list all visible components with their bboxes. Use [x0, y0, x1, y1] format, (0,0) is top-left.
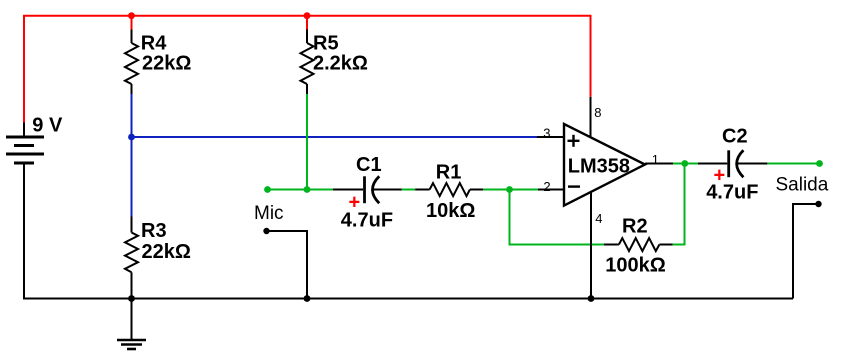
wire: black output stub pin 1 [645, 163, 673, 165]
op-amp U1 LM358 [564, 124, 645, 206]
ground [117, 299, 146, 350]
wire: red stub top of R4 [131, 16, 133, 30]
wire: green output to C2 [673, 163, 698, 165]
wire: blue from R4 bottom to node [131, 94, 133, 137]
resistor R3 22k [125, 217, 191, 299]
svg-text:R3: R3 [141, 220, 167, 242]
wire: battery minus down and along bottom rail [24, 163, 793, 299]
node Salida terminal (green dot) [816, 160, 823, 167]
wire: black pin 4 down to bottom rail [590, 192, 592, 299]
battery B1 9 V [6, 115, 63, 164]
wire: black stub pin 3 [537, 136, 564, 138]
resistor R4 22k [125, 30, 191, 95]
wire: green C1 to R1 [402, 189, 415, 191]
wire: Salida ground branch to bottom rail [793, 204, 819, 299]
wire: green from R5 bottom down to mic line [306, 94, 308, 190]
wire: black pin 8 stub [590, 97, 592, 137]
svg-text:4.7uF: 4.7uF [706, 182, 758, 204]
wire: blue node down toward R3 [131, 137, 133, 217]
wire: green mic line to C1 [268, 189, 334, 191]
svg-text:8: 8 [594, 105, 601, 120]
svg-text:3: 3 [543, 125, 550, 140]
svg-text:4: 4 [595, 211, 602, 226]
capacitor C2 4.7uF [698, 125, 767, 203]
wire: black stub to pin 2 [538, 189, 564, 191]
svg-text:LM358: LM358 [568, 156, 630, 178]
junction dot: top rail at R5 (red) [304, 12, 311, 19]
svg-text:C1: C1 [356, 154, 382, 176]
svg-text:4.7uF: 4.7uF [341, 210, 393, 232]
wire: blue node to op-amp pin3 [132, 136, 538, 138]
svg-text:10kΩ: 10kΩ [426, 200, 475, 222]
wire: red stub top of R5 [306, 16, 308, 30]
feedback wire: green from inverting node down and right [510, 190, 605, 245]
wire: green C2 to Salida [767, 163, 819, 165]
wire: green R1 to inverting node [483, 189, 538, 191]
svg-text:22kΩ: 22kΩ [142, 241, 191, 263]
feedback wire: green from R2 up to output node [673, 164, 685, 245]
node Mic terminal (green dot) [264, 186, 271, 193]
resistor R2 100k [604, 216, 673, 277]
svg-text:C2: C2 [722, 125, 748, 147]
junction dot: bottom rail at pin 4 [588, 295, 595, 302]
svg-text:100kΩ: 100kΩ [605, 255, 666, 277]
junction dot: output node (green) [681, 160, 688, 167]
junction dot: mic line at R5 column (green) [304, 186, 311, 193]
resistor R5 2.2k [301, 30, 368, 95]
junction dot: bottom rail at mic column [304, 295, 311, 302]
wire: mic ground terminal to bottom rail [267, 231, 308, 299]
capacitor C1 4.7uF [333, 154, 402, 231]
node Mic ground terminal (black dot) [263, 228, 269, 234]
svg-text:1: 1 [652, 152, 659, 167]
resistor R1 10k [415, 161, 483, 222]
junction dot: bottom rail at R3 [128, 295, 135, 302]
svg-text:Salida: Salida [776, 175, 829, 196]
svg-text:2: 2 [543, 179, 550, 194]
svg-text:R1: R1 [436, 161, 462, 183]
wire: top +V rail (red) [24, 16, 591, 124]
svg-text:R5: R5 [313, 33, 339, 55]
svg-text:R2: R2 [622, 216, 648, 238]
junction dot: inverting node (green) [506, 186, 513, 193]
svg-text:Mic: Mic [254, 203, 284, 224]
node Salida ground terminal (black dot) [815, 201, 821, 207]
svg-text:R4: R4 [141, 33, 167, 55]
svg-text:2.2kΩ: 2.2kΩ [313, 52, 368, 74]
svg-text:22kΩ: 22kΩ [142, 52, 191, 74]
svg-text:9 V: 9 V [32, 115, 63, 137]
junction dot: bias node (blue) [128, 134, 135, 141]
junction dot: top rail at R4 (red) [128, 12, 135, 19]
